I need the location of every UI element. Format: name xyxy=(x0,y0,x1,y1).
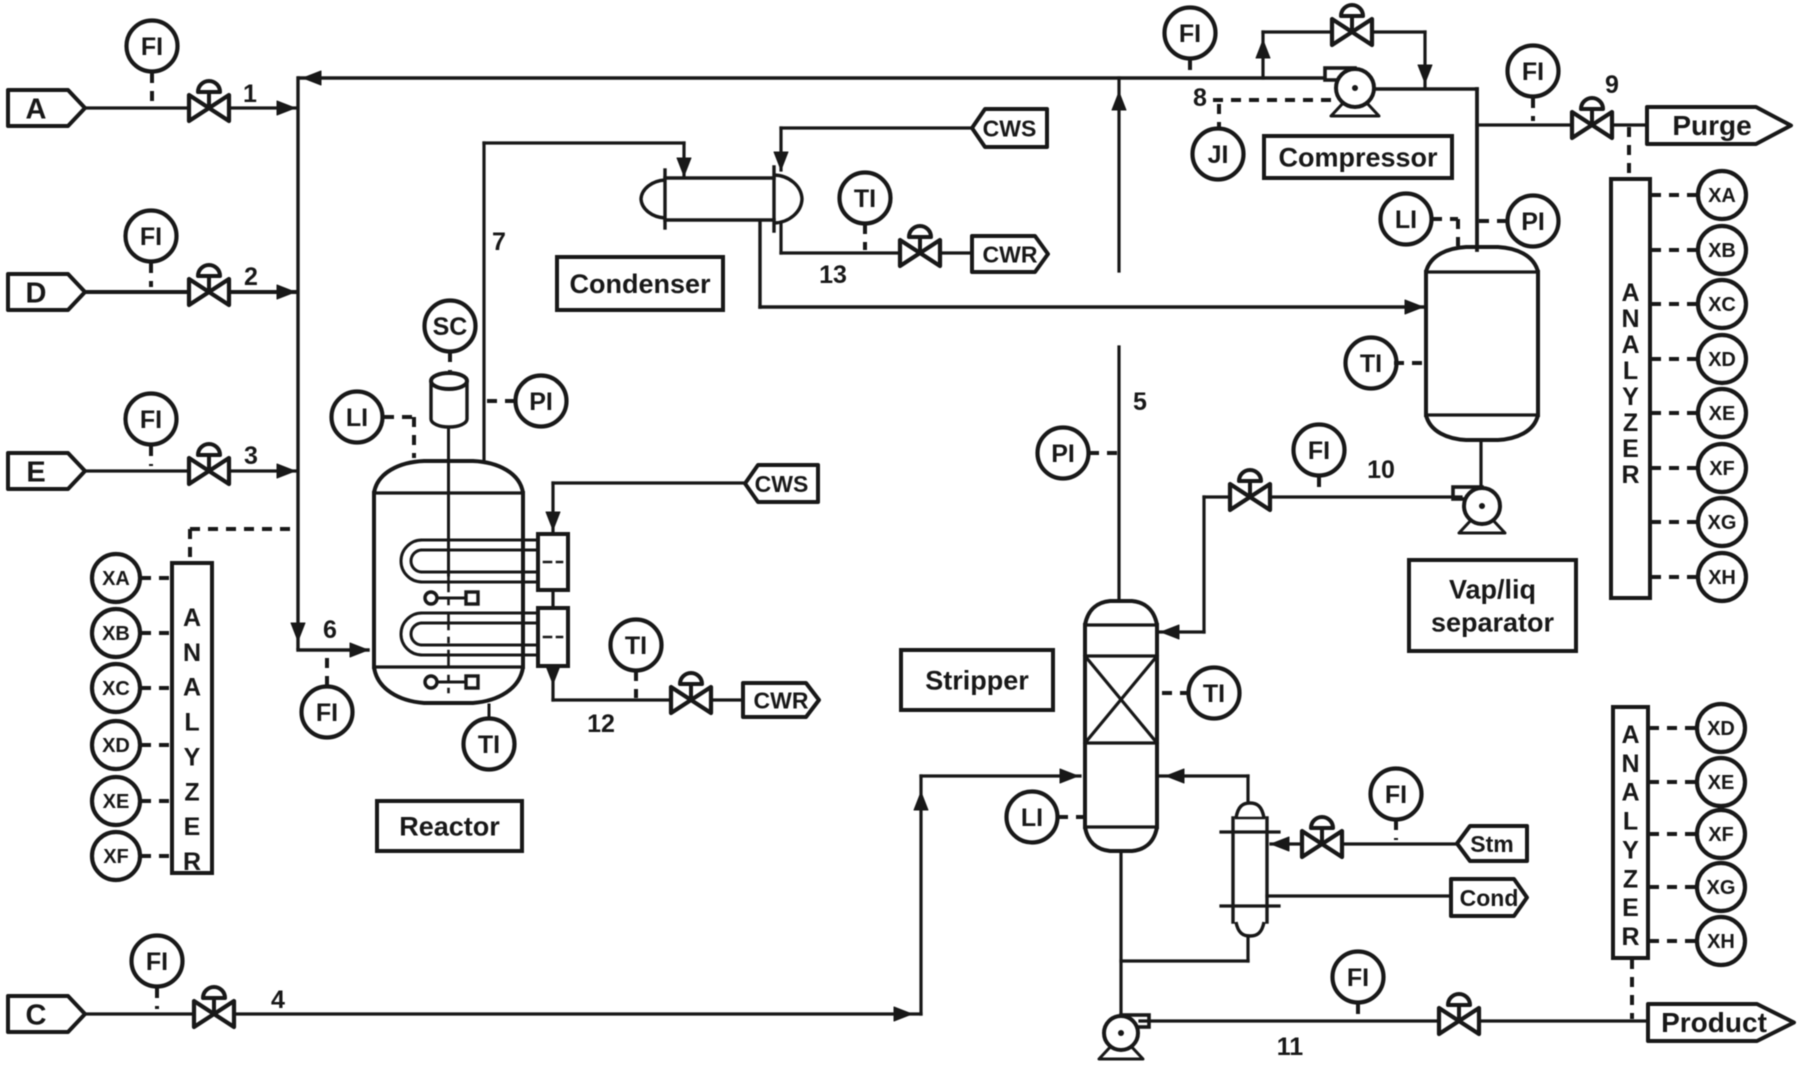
svg-text:FI: FI xyxy=(141,33,163,61)
svg-text:13: 13 xyxy=(819,261,847,289)
svg-text:Stripper: Stripper xyxy=(925,666,1029,696)
svg-text:Condenser: Condenser xyxy=(569,269,711,299)
svg-text:LI: LI xyxy=(346,404,368,432)
svg-text:6: 6 xyxy=(323,616,337,644)
svg-text:FI: FI xyxy=(1347,964,1369,992)
svg-text:A: A xyxy=(1621,779,1639,807)
svg-text:A: A xyxy=(1621,331,1639,359)
svg-text:XD: XD xyxy=(1707,718,1735,740)
svg-text:XA: XA xyxy=(102,568,130,590)
svg-text:CWR: CWR xyxy=(754,687,809,713)
svg-text:LI: LI xyxy=(1395,206,1417,234)
svg-text:A: A xyxy=(183,604,201,632)
svg-text:JI: JI xyxy=(1208,141,1229,169)
svg-text:XB: XB xyxy=(1708,240,1736,262)
svg-text:9: 9 xyxy=(1605,71,1619,99)
svg-text:N: N xyxy=(1621,305,1639,333)
svg-text:XE: XE xyxy=(1708,772,1735,794)
svg-text:XH: XH xyxy=(1707,931,1735,953)
svg-text:TI: TI xyxy=(854,185,876,213)
svg-text:XB: XB xyxy=(102,623,130,645)
svg-text:XH: XH xyxy=(1708,567,1736,589)
svg-text:FI: FI xyxy=(140,223,162,251)
svg-text:Cond: Cond xyxy=(1460,885,1519,911)
svg-text:FI: FI xyxy=(146,948,168,976)
svg-text:FI: FI xyxy=(1522,58,1544,86)
svg-text:12: 12 xyxy=(587,710,615,738)
svg-text:XE: XE xyxy=(103,791,130,813)
svg-text:LI: LI xyxy=(1021,804,1043,832)
svg-text:Purge: Purge xyxy=(1672,110,1751,141)
svg-text:N: N xyxy=(183,639,201,667)
svg-text:Z: Z xyxy=(184,778,199,806)
svg-text:E: E xyxy=(1622,894,1639,922)
svg-text:XF: XF xyxy=(103,846,129,868)
svg-text:3: 3 xyxy=(244,442,258,470)
svg-text:XE: XE xyxy=(1709,403,1736,425)
svg-text:FI: FI xyxy=(140,406,162,434)
svg-text:E: E xyxy=(1622,435,1639,463)
svg-text:E: E xyxy=(184,813,201,841)
svg-text:XF: XF xyxy=(1709,458,1735,480)
svg-text:FI: FI xyxy=(1385,781,1407,809)
svg-text:Y: Y xyxy=(1622,836,1639,864)
svg-text:TI: TI xyxy=(478,731,500,759)
svg-text:XG: XG xyxy=(1707,877,1736,899)
svg-text:SC: SC xyxy=(433,313,468,341)
svg-text:11: 11 xyxy=(1277,1033,1304,1061)
svg-text:A: A xyxy=(1621,279,1639,307)
svg-text:TI: TI xyxy=(625,632,647,660)
svg-text:Z: Z xyxy=(1623,865,1638,893)
svg-text:A: A xyxy=(26,94,47,126)
svg-text:FI: FI xyxy=(1179,20,1201,48)
svg-text:XG: XG xyxy=(1708,512,1737,534)
svg-text:C: C xyxy=(26,1000,47,1032)
svg-text:Vap/liq: Vap/liq xyxy=(1449,575,1536,605)
svg-text:R: R xyxy=(183,848,201,876)
svg-text:Reactor: Reactor xyxy=(399,812,500,842)
svg-text:CWS: CWS xyxy=(755,471,809,497)
svg-text:Y: Y xyxy=(184,743,201,771)
svg-text:Compressor: Compressor xyxy=(1278,143,1438,173)
svg-text:Stm: Stm xyxy=(1470,831,1513,857)
svg-text:XC: XC xyxy=(102,678,130,700)
svg-text:FI: FI xyxy=(316,699,338,727)
svg-text:XF: XF xyxy=(1708,824,1734,846)
svg-text:E: E xyxy=(26,457,45,489)
svg-text:CWR: CWR xyxy=(983,241,1038,267)
svg-text:XD: XD xyxy=(1708,349,1736,371)
svg-text:L: L xyxy=(184,709,199,737)
svg-text:N: N xyxy=(1621,750,1639,778)
svg-text:R: R xyxy=(1621,923,1639,951)
svg-text:1: 1 xyxy=(243,80,257,108)
svg-text:2: 2 xyxy=(244,263,258,291)
svg-text:Y: Y xyxy=(1622,383,1639,411)
svg-text:XD: XD xyxy=(102,735,130,757)
svg-text:7: 7 xyxy=(492,228,506,256)
svg-text:PI: PI xyxy=(1521,208,1545,236)
svg-text:L: L xyxy=(1623,808,1638,836)
svg-text:TI: TI xyxy=(1203,680,1225,708)
svg-text:5: 5 xyxy=(1133,388,1147,416)
svg-text:XA: XA xyxy=(1708,185,1736,207)
svg-text:CWS: CWS xyxy=(983,115,1037,141)
svg-text:TI: TI xyxy=(1360,350,1382,378)
svg-text:D: D xyxy=(26,278,47,310)
svg-text:L: L xyxy=(1623,357,1638,385)
svg-text:PI: PI xyxy=(529,388,553,416)
svg-text:FI: FI xyxy=(1308,437,1330,465)
svg-text:separator: separator xyxy=(1431,608,1555,638)
svg-text:Product: Product xyxy=(1661,1007,1767,1038)
svg-text:8: 8 xyxy=(1193,84,1207,112)
svg-text:A: A xyxy=(183,674,201,702)
svg-text:A: A xyxy=(1621,721,1639,749)
svg-text:R: R xyxy=(1621,461,1639,489)
svg-text:4: 4 xyxy=(271,986,285,1014)
svg-text:10: 10 xyxy=(1367,456,1395,484)
svg-text:Z: Z xyxy=(1623,409,1638,437)
svg-text:XC: XC xyxy=(1708,294,1736,316)
svg-text:PI: PI xyxy=(1051,440,1075,468)
